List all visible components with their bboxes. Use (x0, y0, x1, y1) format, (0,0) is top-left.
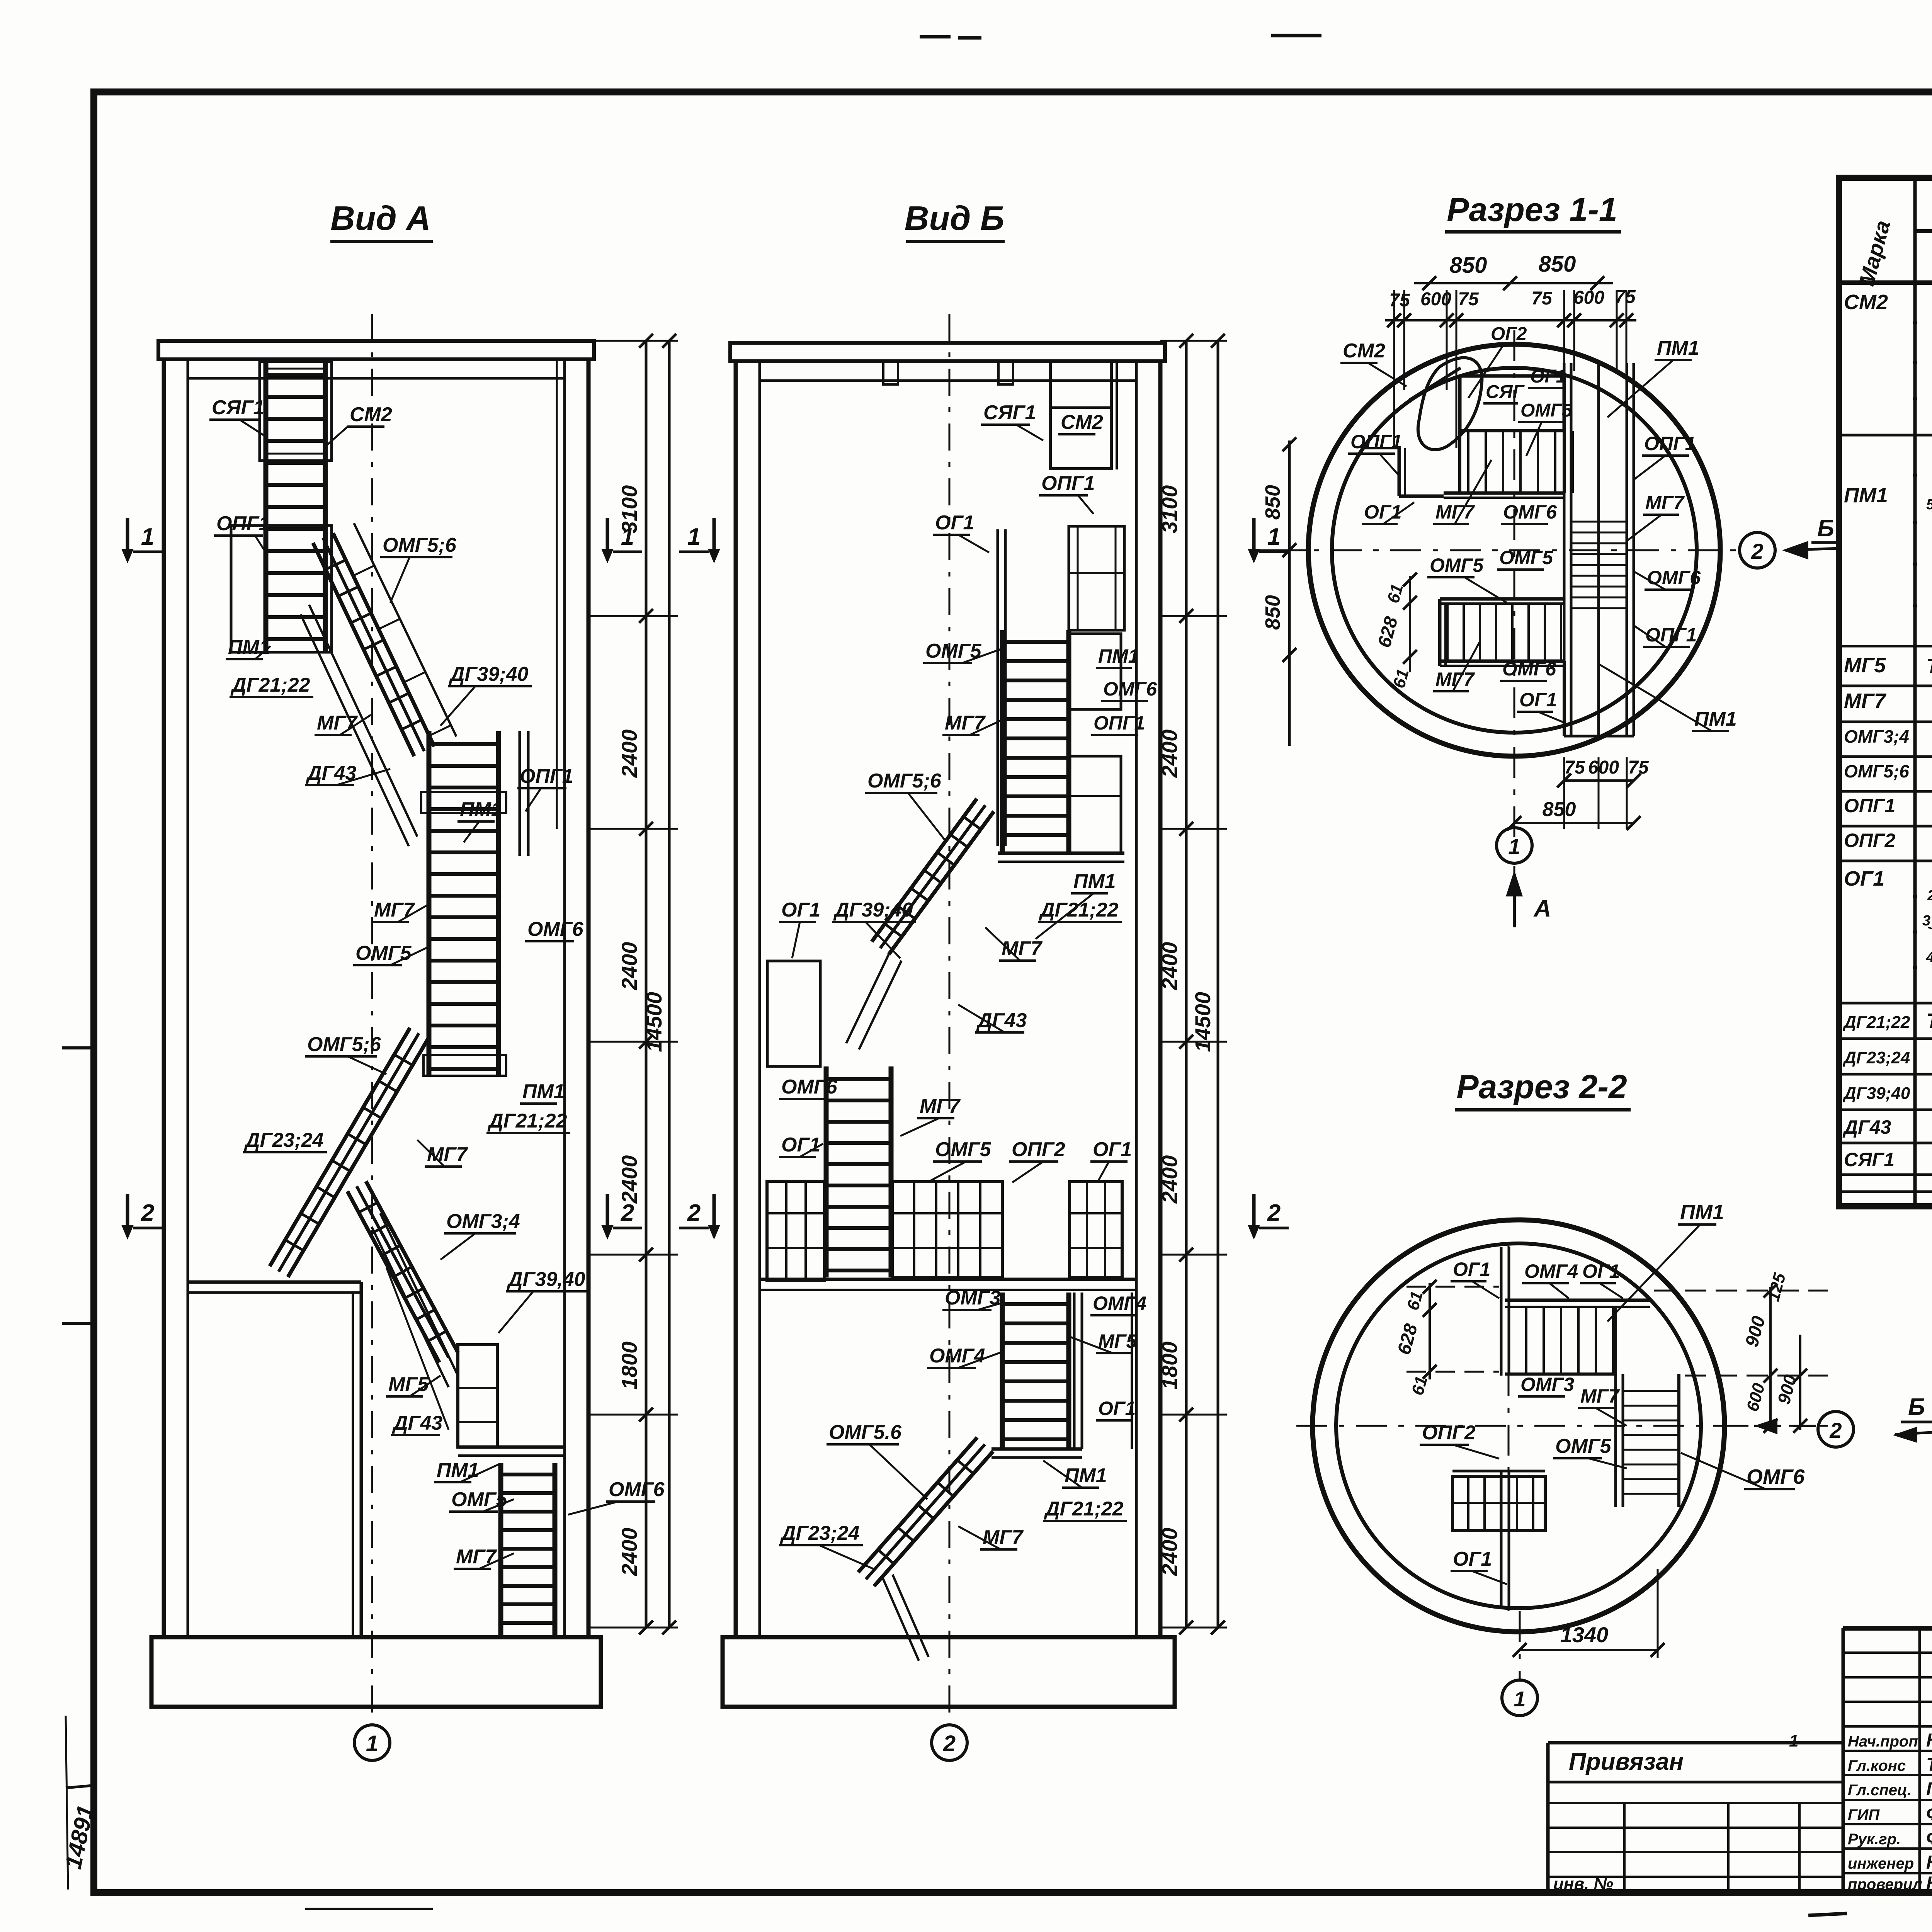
svg-text:Кондык: Кондык (1926, 1852, 1932, 1873)
svg-text:ПМ1: ПМ1 (460, 798, 502, 821)
svg-text:ОМГ3;4: ОМГ3;4 (1844, 726, 1909, 747)
svg-text:ОГ1: ОГ1 (1364, 501, 1401, 523)
svg-text:ОПГ1: ОПГ1 (216, 512, 270, 535)
svg-text:850: 850 (1539, 252, 1576, 277)
svg-text:2: 2 (1267, 1200, 1281, 1226)
svg-text:ОМГ3;4: ОМГ3;4 (446, 1210, 520, 1233)
svg-text:ОМГ5.6: ОМГ5.6 (829, 1421, 902, 1444)
svg-text:75: 75 (1458, 289, 1479, 310)
svg-text:2400: 2400 (1157, 942, 1182, 991)
svg-text:ОМГ5;6: ОМГ5;6 (307, 1033, 381, 1056)
svg-text:2: 2 (687, 1200, 701, 1226)
svg-text:850: 850 (1261, 485, 1284, 520)
svg-text:ОМГ5: ОМГ5 (935, 1138, 992, 1161)
svg-text:ДГ43: ДГ43 (392, 1412, 442, 1434)
svg-text:ОМГ5: ОМГ5 (355, 942, 412, 964)
svg-text:ОМГ5: ОМГ5 (1555, 1435, 1612, 1458)
svg-text:1800: 1800 (1157, 1342, 1182, 1390)
svg-text:ОМГ6: ОМГ6 (1502, 658, 1556, 680)
svg-text:Фомин: Фомин (1926, 1804, 1932, 1824)
svg-text:СМ2: СМ2 (1844, 291, 1888, 314)
svg-text:3100: 3100 (1157, 485, 1182, 534)
svg-text:ОГ1: ОГ1 (1519, 689, 1557, 711)
svg-text:ОПГ1: ОПГ1 (1644, 433, 1696, 454)
svg-text:Финк: Финк (1926, 1828, 1932, 1849)
svg-text:СЯГ: СЯГ (1486, 382, 1525, 402)
svg-text:850: 850 (1543, 798, 1576, 821)
svg-text:ПМ1: ПМ1 (437, 1459, 479, 1481)
svg-text:Разрез 1-1: Разрез 1-1 (1447, 191, 1617, 228)
svg-text:14500: 14500 (1190, 992, 1215, 1052)
svg-text:Гл.спец.: Гл.спец. (1848, 1782, 1912, 1799)
svg-text:ПМ1: ПМ1 (1844, 484, 1888, 507)
svg-text:Б: Б (1817, 515, 1834, 542)
svg-text:1: 1 (687, 524, 701, 550)
svg-text:МГ7: МГ7 (1580, 1385, 1620, 1407)
svg-text:5: 5 (1926, 497, 1932, 513)
svg-text:Гл.конс: Гл.конс (1848, 1757, 1906, 1774)
svg-text:Пронин: Пронин (1926, 1779, 1932, 1799)
svg-text:Вид А: Вид А (330, 199, 431, 237)
svg-text:ОПГ1: ОПГ1 (1645, 624, 1697, 646)
svg-text:ОМГ6: ОМГ6 (1503, 501, 1557, 523)
svg-text:1: 1 (141, 524, 154, 550)
svg-text:ОПГ2: ОПГ2 (1012, 1138, 1065, 1161)
svg-text:Карякина: Карякина (1926, 1873, 1932, 1894)
svg-text:Рук.гр.: Рук.гр. (1848, 1831, 1901, 1848)
svg-text:МГ5: МГ5 (1098, 1330, 1137, 1352)
svg-text:ПМ1: ПМ1 (1680, 1201, 1724, 1224)
svg-text:2400: 2400 (1157, 730, 1182, 778)
svg-text:ДГ21;22: ДГ21;22 (1044, 1498, 1124, 1520)
svg-text:ДГ21;22: ДГ21;22 (1039, 899, 1119, 921)
svg-text:МГ7: МГ7 (456, 1546, 497, 1568)
svg-text:3100: 3100 (617, 485, 641, 534)
svg-text:МГ7: МГ7 (1645, 492, 1685, 514)
svg-text:2400: 2400 (1157, 1155, 1182, 1204)
svg-text:ДГ23;24: ДГ23;24 (780, 1522, 860, 1544)
svg-text:ОМГ5: ОМГ5 (451, 1488, 508, 1511)
svg-text:600: 600 (1588, 757, 1619, 778)
svg-text:ОПГ1: ОПГ1 (1350, 431, 1402, 452)
svg-text:2: 2 (943, 1731, 956, 1756)
svg-text:ОМГ6: ОМГ6 (781, 1076, 838, 1098)
svg-text:850: 850 (1261, 595, 1284, 630)
svg-text:ОГ1: ОГ1 (1093, 1138, 1132, 1161)
svg-text:СЯГ1: СЯГ1 (212, 396, 264, 419)
svg-text:ОГ1: ОГ1 (781, 1134, 820, 1156)
svg-text:ОГ1: ОГ1 (781, 899, 820, 921)
svg-text:ОПГ2: ОПГ2 (1422, 1422, 1476, 1444)
svg-text:ПМ1: ПМ1 (522, 1080, 565, 1103)
svg-text:75: 75 (1564, 757, 1585, 778)
svg-text:ОМГ5;6: ОМГ5;6 (383, 534, 457, 556)
svg-text:ОМГ3: ОМГ3 (1520, 1374, 1574, 1395)
svg-text:Б: Б (1908, 1394, 1925, 1420)
svg-text:Колесов: Колесов (1926, 1730, 1932, 1751)
svg-text:ТА серия 1.459-2: ТА серия 1.459-2 (1926, 1009, 1932, 1032)
svg-text:ОМГ4: ОМГ4 (1093, 1293, 1146, 1314)
svg-text:ОГ1: ОГ1 (1530, 366, 1566, 387)
svg-text:ГИП: ГИП (1848, 1806, 1880, 1823)
svg-text:МГ5: МГ5 (1844, 654, 1886, 677)
svg-text:ДГ21;22: ДГ21;22 (487, 1110, 567, 1132)
svg-text:ОМГ5;6: ОМГ5;6 (1844, 761, 1909, 781)
svg-text:600: 600 (1573, 287, 1604, 308)
svg-text:ДГ21;22: ДГ21;22 (230, 674, 310, 696)
svg-text:СЯГ1: СЯГ1 (983, 401, 1036, 424)
svg-text:ОМГ5: ОМГ5 (1430, 554, 1484, 576)
svg-text:СМ2: СМ2 (1343, 340, 1385, 362)
svg-text:А: А (1533, 895, 1551, 922)
svg-text:Вид Б: Вид Б (905, 199, 1004, 237)
svg-text:3: 3 (1922, 913, 1930, 929)
svg-text:ОПГ2: ОПГ2 (1844, 830, 1896, 851)
svg-text:75: 75 (1389, 290, 1410, 311)
svg-text:2: 2 (141, 1200, 154, 1226)
svg-text:ОПГ1: ОПГ1 (1041, 472, 1095, 495)
svg-text:ПМ1: ПМ1 (1073, 870, 1116, 893)
svg-text:ОГ1: ОГ1 (1453, 1259, 1490, 1280)
svg-text:2400: 2400 (617, 1528, 641, 1577)
svg-text:ОМГ4: ОМГ4 (929, 1345, 985, 1367)
svg-text:2: 2 (1751, 539, 1763, 563)
svg-text:ОМГ6: ОМГ6 (1103, 678, 1157, 700)
svg-text:75: 75 (1628, 757, 1649, 778)
svg-text:МГ7: МГ7 (983, 1526, 1024, 1549)
svg-text:СМ2: СМ2 (1061, 411, 1103, 434)
svg-text:ОМГ5;6: ОМГ5;6 (867, 770, 942, 792)
svg-text:инв. №: инв. № (1553, 1874, 1613, 1893)
svg-text:ОГ1: ОГ1 (1844, 867, 1884, 890)
svg-text:4: 4 (1926, 949, 1932, 966)
svg-text:ОПГ1: ОПГ1 (1844, 795, 1895, 816)
svg-text:2400: 2400 (617, 730, 641, 778)
svg-text:ДГ21;22: ДГ21;22 (1842, 1013, 1910, 1032)
svg-text:ДГ39,40: ДГ39,40 (507, 1268, 585, 1291)
svg-text:14500: 14500 (642, 992, 666, 1052)
svg-text:Нач.проп: Нач.проп (1848, 1733, 1918, 1750)
svg-text:ОПГ1: ОПГ1 (1094, 712, 1145, 734)
svg-text:ПМ1: ПМ1 (1694, 708, 1737, 730)
svg-text:МГ7: МГ7 (317, 712, 358, 734)
svg-text:ОМГ5: ОМГ5 (1499, 547, 1553, 568)
svg-text:2400: 2400 (617, 942, 641, 991)
svg-text:МГ7: МГ7 (1435, 501, 1475, 523)
svg-text:Привязан: Привязан (1569, 1748, 1684, 1775)
svg-text:ОМГ5: ОМГ5 (1520, 400, 1573, 421)
svg-text:2400: 2400 (1157, 1528, 1182, 1577)
svg-text:ПМ1: ПМ1 (1065, 1464, 1107, 1487)
svg-text:ОГ1: ОГ1 (1453, 1548, 1492, 1570)
svg-text:ТА серия 1.459-2: ТА серия 1.459-2 (1926, 655, 1932, 678)
svg-text:1: 1 (1267, 524, 1281, 550)
svg-text:ОМГ4: ОМГ4 (1524, 1260, 1578, 1282)
svg-text:2: 2 (1829, 1418, 1842, 1442)
svg-text:инженер: инженер (1848, 1855, 1914, 1872)
svg-text:МГ7: МГ7 (1844, 689, 1887, 713)
svg-text:ДГ39;40: ДГ39;40 (833, 899, 913, 921)
svg-text:Разрез 2-2: Разрез 2-2 (1456, 1068, 1627, 1105)
svg-text:ПМ1: ПМ1 (1098, 645, 1139, 667)
svg-text:75: 75 (1531, 288, 1553, 309)
svg-text:1340: 1340 (1560, 1622, 1609, 1647)
svg-text:ПМ1: ПМ1 (228, 636, 270, 658)
svg-text:ДГ23;24: ДГ23;24 (1842, 1048, 1910, 1067)
svg-text:1: 1 (1514, 1687, 1526, 1711)
svg-text:ПМ1: ПМ1 (1657, 337, 1699, 359)
svg-text:СМ2: СМ2 (350, 403, 392, 426)
svg-text:ОГ1: ОГ1 (1582, 1260, 1620, 1282)
svg-text:ДГ39;40: ДГ39;40 (1842, 1084, 1910, 1103)
svg-text:1: 1 (366, 1731, 378, 1756)
svg-text:ОГ1: ОГ1 (1098, 1398, 1136, 1419)
svg-text:МГ7: МГ7 (920, 1095, 961, 1117)
svg-text:2: 2 (621, 1200, 634, 1226)
svg-text:ОМГ6: ОМГ6 (1647, 567, 1701, 588)
svg-text:ОПГ1: ОПГ1 (520, 765, 573, 787)
svg-text:2: 2 (1927, 888, 1932, 904)
svg-text:1800: 1800 (617, 1342, 641, 1390)
svg-text:850: 850 (1450, 253, 1487, 278)
svg-text:ОМГ6: ОМГ6 (609, 1478, 665, 1501)
svg-text:МГ7: МГ7 (374, 899, 415, 921)
svg-text:проверил: проверил (1848, 1876, 1922, 1893)
svg-text:Таш: Таш (1926, 1755, 1932, 1775)
svg-text:2400: 2400 (617, 1155, 641, 1204)
svg-text:ОМГ6: ОМГ6 (527, 918, 584, 940)
svg-text:ДГ39;40: ДГ39;40 (449, 663, 529, 685)
svg-text:ОГ2: ОГ2 (1491, 324, 1527, 344)
svg-text:ДГ43: ДГ43 (1842, 1116, 1891, 1138)
svg-text:ОГ1: ОГ1 (935, 512, 974, 534)
svg-text:МГ5: МГ5 (388, 1373, 429, 1396)
svg-text:1: 1 (1508, 834, 1520, 859)
svg-text:СЯГ1: СЯГ1 (1844, 1149, 1895, 1170)
svg-text:ДГ23;24: ДГ23;24 (244, 1129, 324, 1151)
